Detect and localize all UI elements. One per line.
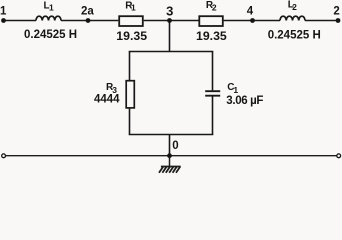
wire from node 3 down to shunt branch (169, 21, 171, 52)
bottom left open terminal (2, 154, 6, 158)
wire from C1 to bottom bar (212, 97, 214, 135)
svg-text:2: 2 (292, 2, 297, 12)
label L1 (44, 0, 55, 12)
wire from L1 to resistor R1 (61, 20, 118, 22)
svg-text:4: 4 (247, 6, 254, 18)
wire left branch down to R3 (129, 52, 131, 81)
wire from bottom bar down to node 0 (169, 135, 171, 156)
label R2 (206, 0, 217, 13)
label C1 (227, 82, 238, 95)
label R1 (125, 1, 136, 13)
inductor L1 (36, 16, 61, 20)
svg-text:19.35: 19.35 (196, 29, 227, 43)
svg-text:1: 1 (0, 6, 7, 18)
node 1 terminal dot (1, 18, 6, 23)
svg-text:1: 1 (131, 3, 136, 13)
label R3 (106, 82, 117, 95)
node 0 junction dot (167, 153, 172, 158)
resistor R1 (119, 16, 143, 26)
ground (159, 156, 181, 173)
svg-text:3.06 µF: 3.06 µF (226, 95, 263, 107)
node 2a junction dot (86, 18, 91, 23)
svg-text:2a: 2a (81, 6, 94, 18)
svg-text:3: 3 (166, 4, 173, 19)
svg-text:0.24525 H: 0.24525 H (24, 29, 77, 41)
inductor L2 (280, 16, 305, 20)
svg-text:0.24525 H: 0.24525 H (268, 30, 321, 42)
svg-text:0: 0 (172, 140, 178, 152)
wire from R2 to inductor L2 (224, 20, 280, 22)
wire bottom rail (5, 155, 337, 157)
node 4 junction dot (250, 18, 255, 23)
label L2 (288, 0, 297, 12)
svg-text:1: 1 (49, 3, 54, 13)
bottom right open terminal (337, 154, 341, 158)
resistor R2 (199, 16, 223, 26)
wire right branch down to C1 (212, 52, 214, 91)
wire top rail left segment with inductor L1 body gap (4, 20, 37, 22)
wire top bar of shunt loop (130, 51, 213, 54)
wire from L2 to node 2 (305, 20, 338, 22)
svg-text:2: 2 (212, 3, 217, 13)
svg-text:19.35: 19.35 (116, 29, 147, 43)
svg-text:4444: 4444 (94, 94, 120, 106)
wire from R1 through node 3 to resistor R2 (144, 20, 199, 22)
wire from R3 to bottom bar (129, 109, 131, 135)
capacitor C1 (205, 91, 220, 96)
node 2 terminal dot (336, 18, 341, 23)
svg-text:1: 1 (233, 85, 238, 95)
svg-text:2: 2 (333, 6, 339, 18)
wire bottom bar of shunt loop (130, 133, 213, 136)
node 3 junction dot (167, 18, 172, 23)
resistor R3 (126, 81, 134, 108)
